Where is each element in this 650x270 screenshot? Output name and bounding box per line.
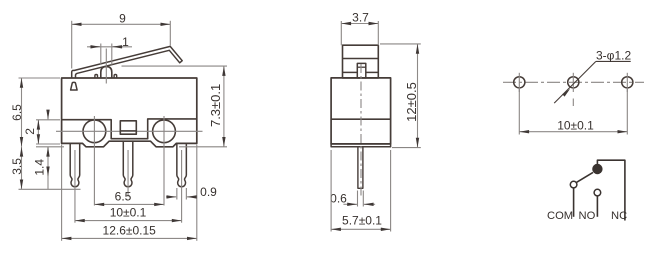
dimension 12.6 extension left — [61, 145, 63, 241]
dimension 12.6 extension right — [196, 145, 198, 241]
svg-text:COM: COM — [547, 210, 573, 222]
holes horizontal centerline — [56, 130, 203, 132]
lever arm — [72, 46, 183, 78]
stem — [357, 63, 366, 78]
front body divider — [331, 118, 391, 120]
stem inner line — [357, 66, 366, 68]
COM wire — [573, 188, 575, 217]
svg-text:0.6: 0.6 — [330, 191, 347, 205]
svg-text:3.7: 3.7 — [352, 10, 369, 24]
svg-text:10±0.1: 10±0.1 — [110, 206, 147, 220]
hole pattern horizontal centerline — [503, 81, 644, 83]
svg-text:3-φ1.2: 3-φ1.2 — [596, 48, 631, 62]
dimension 9 line — [72, 23, 171, 25]
hole callout underline — [596, 60, 631, 62]
small bump right of dome — [114, 75, 117, 79]
hole callout leader 3-phi1.2 — [554, 61, 596, 103]
cap divider lower (right of stem) — [366, 71, 379, 73]
dimension 6.5 (left, vertical) extension top — [19, 77, 61, 79]
base plate band — [331, 144, 391, 147]
pin 3 centerline — [181, 150, 183, 223]
dimension 2 extension top — [36, 119, 60, 121]
dimension 10 (bottom view) extension left — [518, 89, 520, 135]
hole 3 vertical centerline — [626, 73, 628, 92]
svg-text:0.9: 0.9 — [200, 185, 217, 199]
dimension 3.5 vertical line — [21, 147, 23, 190]
pin 3 (right terminal) — [177, 143, 187, 186]
dimension 5.7 extension left — [330, 150, 332, 232]
molded trapezoid mark top-left — [71, 82, 78, 90]
dimension 7.3 vertical line — [223, 66, 225, 147]
dimension 1.4 arrow bottom — [47, 169, 49, 176]
center slot divider — [120, 130, 136, 132]
front pin — [358, 147, 363, 189]
svg-text:1: 1 — [122, 35, 129, 49]
dimension 0.9 extension right — [185, 188, 187, 200]
front body — [331, 78, 391, 144]
dimension 9 extension left — [71, 21, 73, 69]
dimension 12 extension bottom — [392, 147, 421, 149]
hole 2 vertical centerline — [572, 73, 574, 92]
dimension 10 (bottom view) extension right — [626, 89, 628, 135]
internal step contour left shelf — [62, 119, 197, 139]
COM contact circle — [570, 181, 577, 188]
center slot rectangle — [120, 121, 136, 134]
pin 1 (left terminal) — [70, 143, 80, 186]
svg-text:3.5: 3.5 — [10, 158, 24, 175]
dimension 1 line with outside arrows — [87, 46, 132, 48]
cap divider lower (left of stem) — [343, 71, 358, 73]
plunger dome — [101, 67, 112, 78]
dimension 6.5 vertical line — [21, 78, 23, 147]
dimension 10 (bottom view) line — [519, 131, 627, 133]
dimension 6.5 (bottom) line — [94, 203, 164, 205]
svg-text:5.7±0.1: 5.7±0.1 — [342, 214, 382, 228]
dimension 1.4 vertical line — [47, 147, 49, 190]
vertical centerline — [360, 64, 362, 197]
dimension 1 extension left — [100, 44, 102, 65]
plunger centerline — [105, 49, 107, 84]
small bump left of dome — [95, 75, 98, 79]
dimension 12 vertical line — [417, 44, 419, 148]
svg-text:12.6±0.15: 12.6±0.15 — [103, 223, 157, 237]
dimension 2 extension bottom — [36, 143, 60, 145]
hole 2 centerline dash below — [572, 99, 574, 107]
svg-text:1.4: 1.4 — [33, 159, 47, 176]
svg-text:6.5: 6.5 — [10, 104, 24, 121]
svg-text:12±0.5: 12±0.5 — [404, 82, 419, 122]
svg-text:NC: NC — [611, 210, 627, 222]
dimension 3.7 extension right — [377, 21, 379, 45]
hole 1 — [514, 77, 525, 88]
dimension 0.9 extension left — [176, 188, 178, 200]
dimension 3.5 extension bottom — [19, 188, 81, 190]
dimension 12 extension top — [380, 43, 421, 45]
svg-text:7.3±0.1: 7.3±0.1 — [208, 84, 223, 127]
dimension 7.3 extension top (from lever tip) — [122, 65, 228, 67]
pin 1 centerline — [74, 150, 76, 223]
svg-text:6.5: 6.5 — [115, 189, 132, 203]
dimension 1 extension right — [111, 44, 113, 65]
dimension 5.7 extension right — [390, 150, 392, 232]
dimension 0.6 arrows — [343, 203, 357, 205]
hole 1 vertical centerline — [518, 73, 520, 92]
dimension 3.7 line — [341, 23, 378, 25]
dimension 9 extension right — [169, 21, 171, 46]
NC contact dot — [592, 164, 602, 174]
dimension 7.3 extension bottom — [179, 146, 227, 148]
plunger cap box — [343, 45, 379, 78]
NO wire — [596, 196, 598, 217]
mounting hole left — [83, 120, 106, 143]
dimension 3.7 extension left — [340, 21, 342, 45]
dimension 1.4 extension at seating plane — [36, 146, 64, 148]
dimension 5.7 line — [331, 228, 391, 230]
hole 3 — [622, 77, 633, 88]
hole 2 — [568, 77, 579, 88]
dimension 0.6 extension left — [357, 191, 359, 207]
dimension 12.6 line — [62, 237, 197, 239]
NO contact circle — [594, 189, 601, 196]
dimension 0.6 extension right — [362, 191, 364, 207]
svg-text:10±0.1: 10±0.1 — [557, 118, 594, 132]
left hole vertical centerline / extension to 6.5 dim — [93, 116, 95, 206]
dimension 0.9 arrows — [166, 196, 176, 198]
svg-text:NO: NO — [579, 210, 596, 222]
svg-text:9: 9 — [119, 12, 126, 26]
right hole vertical centerline / extension to 6.5 dim — [163, 116, 165, 206]
mounting hole right — [153, 120, 176, 143]
pin 2 centerline — [127, 150, 129, 197]
dimension 10 line — [75, 220, 182, 222]
cap divider upper — [343, 58, 379, 60]
dimension 1.4 upper reference arrow — [47, 113, 49, 120]
switch lever wire — [576, 172, 593, 182]
NC top wire — [597, 160, 625, 220]
svg-text:2: 2 — [23, 128, 37, 135]
switch body outline — [62, 78, 197, 147]
dimension 2 vertical line — [37, 120, 39, 144]
pin 2 (middle terminal) — [123, 141, 133, 187]
